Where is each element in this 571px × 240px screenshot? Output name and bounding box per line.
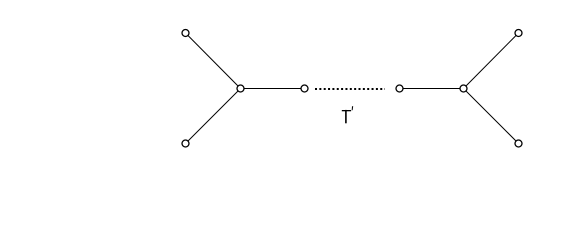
node left hub (237, 85, 244, 92)
wire right hub to right-top leaf (464, 33, 519, 89)
wire left-bottom leaf to left hub (186, 89, 241, 144)
node right hub (460, 85, 467, 92)
wire right hub to right-bottom leaf (464, 89, 519, 144)
node left-top leaf (182, 30, 189, 37)
node right path endpoint (396, 85, 403, 92)
wire dotted middle segment (315, 88, 385, 90)
node right-top leaf (515, 30, 522, 37)
wire left-top leaf to left hub (186, 33, 241, 89)
node left-bottom leaf (182, 140, 189, 147)
node right-bottom leaf (515, 140, 522, 147)
label T' (342, 106, 353, 123)
wire right path node to right hub (400, 88, 464, 90)
wire left hub to left path node (241, 88, 305, 90)
node left path endpoint (301, 85, 308, 92)
